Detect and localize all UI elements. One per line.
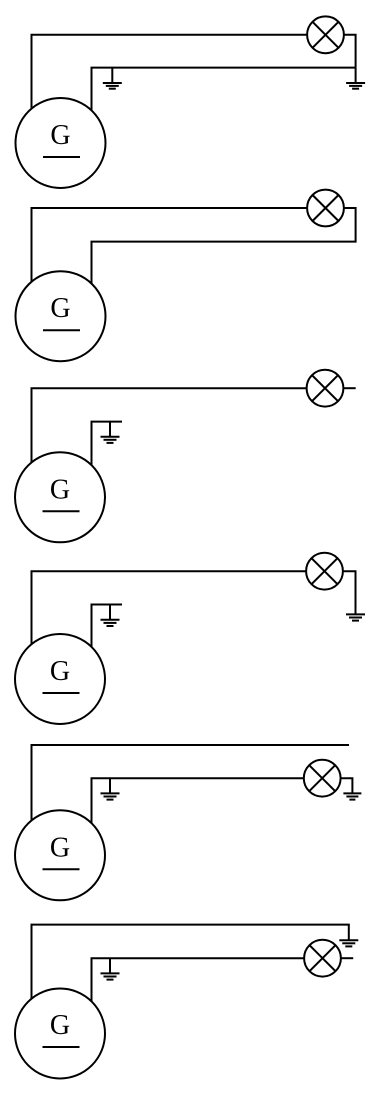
ground: earth symbol hanging from wire of circuit 6 — [101, 958, 120, 979]
wire: generator G2 left terminal up and right to lamp E2 — [32, 208, 326, 316]
wire: generator G6 left terminal up and right to earthed drop — [32, 925, 349, 1033]
ground: earth symbol on generator G4 right terminal stub — [101, 605, 120, 627]
ground: earth symbol on generator G3 right terminal stub — [101, 422, 120, 443]
svg-text:G: G — [50, 832, 70, 863]
ground: earth symbol hanging from wire of circuit 5 — [101, 778, 120, 799]
wire: generator G3 left terminal up and right to lamp E3 — [32, 388, 326, 497]
lamp E5 — [304, 760, 341, 797]
generator G2 — [16, 271, 106, 361]
lamp E3 — [307, 370, 344, 407]
wire: lamp E4 right side down to earth — [343, 571, 356, 614]
ground: earth symbol below lamp E4 — [346, 614, 365, 620]
wire: generator G4 left terminal up and right to lamp E4 — [32, 571, 325, 679]
wire: generator G5 left terminal up and right, open ended above lamp E5 — [32, 745, 350, 855]
ground: earth symbol below lamp E5 — [343, 793, 361, 799]
wire: open stub right of lamp E6 — [341, 957, 353, 959]
wire: lamp E5 right side down to earth — [341, 778, 353, 793]
wire: lamp E1 right side to vertical drop — [344, 35, 356, 68]
generator G5 — [15, 810, 105, 900]
wire: open stub right of lamp E3 — [343, 387, 355, 389]
wire: generator G3 right terminal up to grounded stub — [92, 422, 123, 497]
wire: lamp E2 right side down and back to generator G2 right terminal — [92, 208, 356, 316]
generator G6 — [15, 989, 105, 1079]
generator G1 — [16, 98, 106, 188]
svg-text:G: G — [50, 1010, 70, 1041]
lamp E6 — [304, 940, 341, 977]
svg-text:G: G — [50, 120, 70, 151]
ground: earth symbol below lamp E1 drop — [346, 68, 365, 89]
wire: generator G6 right terminal up and right to lamp E6 — [92, 958, 323, 1033]
generator G4 — [15, 634, 105, 724]
ground: earth symbol hanging from return wire of circuit 1 — [103, 68, 122, 89]
wire: generator G1 left terminal up and right to lamp E1 — [32, 35, 326, 143]
svg-text:G: G — [50, 293, 70, 324]
ground: earth symbol at right end of top wire of circuit 6 — [339, 940, 358, 946]
generator G3 — [15, 452, 105, 542]
lamp E4 — [306, 553, 343, 590]
wire: generator G4 right terminal up to grounded stub — [92, 605, 123, 680]
lamp E1 — [307, 16, 344, 53]
wire: generator G1 right terminal up to return line — [92, 68, 356, 143]
lamp E2 — [307, 190, 344, 227]
svg-text:G: G — [50, 474, 70, 505]
wire: generator G5 right terminal up and right to lamp E5 — [92, 778, 323, 855]
svg-text:G: G — [50, 656, 70, 687]
